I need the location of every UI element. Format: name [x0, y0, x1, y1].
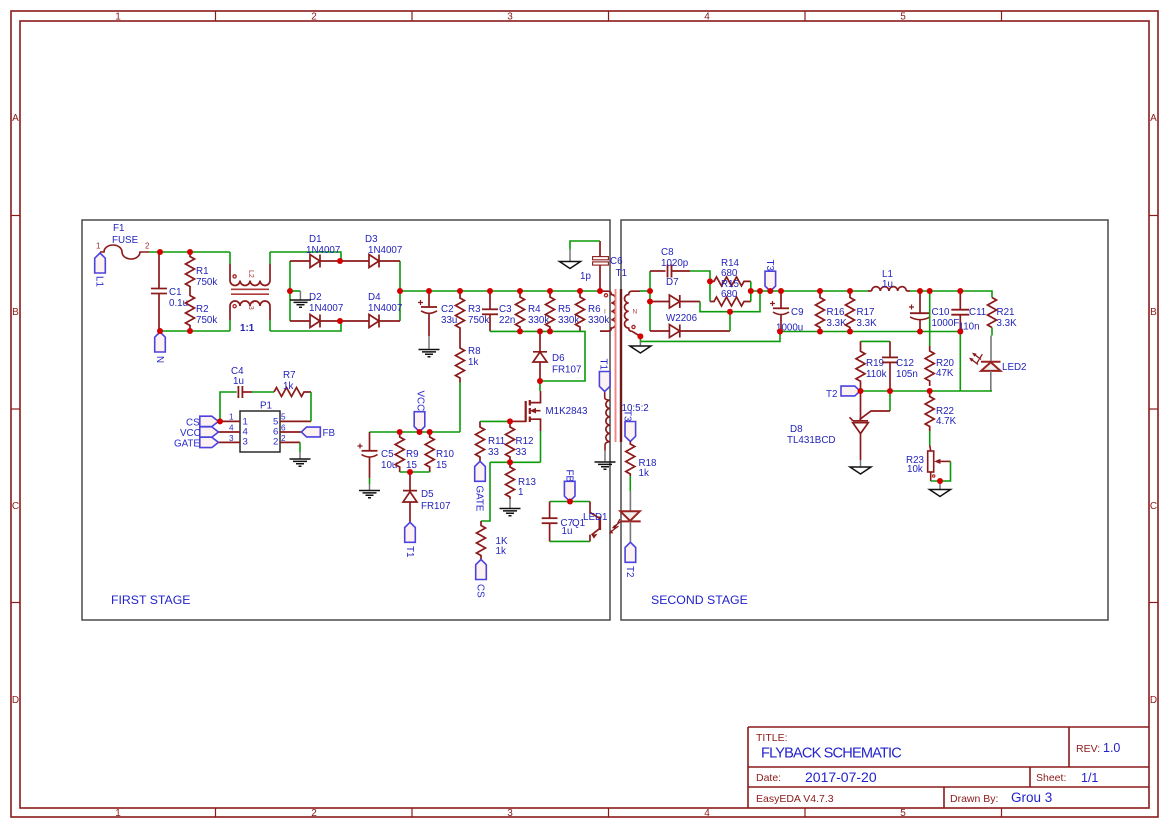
- wire choke to bridge top: [270, 252, 341, 261]
- opto light arrows: [609, 519, 622, 533]
- svg-text:R2: R2: [196, 304, 209, 315]
- svg-text:TL431BCD: TL431BCD: [787, 435, 835, 446]
- resistor R9 15: [395, 432, 418, 472]
- port T3 at R18: [622, 410, 636, 442]
- svg-text:C5: C5: [381, 449, 394, 460]
- svg-text:D8: D8: [790, 424, 803, 435]
- svg-text:1N4007: 1N4007: [306, 245, 340, 256]
- wire gate lead: [510, 420, 526, 422]
- ground C2: [419, 350, 440, 357]
- svg-text:R7: R7: [283, 370, 296, 381]
- wire secondary top to node: [640, 290, 650, 292]
- diode D7: [650, 277, 700, 308]
- port CS flag: [475, 560, 487, 599]
- svg-text:D: D: [1150, 695, 1157, 706]
- transformer core lines: [616, 289, 622, 442]
- ground aux winding: [595, 462, 616, 469]
- junction dots second stage: [637, 278, 963, 484]
- capacitor C4 1u: [231, 366, 252, 398]
- svg-text:A: A: [1150, 113, 1157, 124]
- wire main bus: [400, 290, 600, 292]
- svg-text:REV:: REV:: [1076, 743, 1100, 755]
- wire C4 left branch: [220, 392, 236, 421]
- svg-text:T3: T3: [622, 410, 633, 422]
- svg-text:110k: 110k: [866, 369, 887, 380]
- frame row letters left: [12, 113, 19, 706]
- port N (neutral): [154, 332, 165, 363]
- svg-text:C8: C8: [661, 247, 674, 258]
- resistor R20 47K: [925, 346, 954, 386]
- resistor R21 3.3K: [988, 298, 1018, 330]
- first stage box: [82, 220, 610, 620]
- svg-text:T2: T2: [826, 389, 837, 400]
- svg-text:2: 2: [145, 242, 150, 251]
- svg-text:D6: D6: [552, 353, 565, 364]
- svg-text:C3: C3: [499, 304, 512, 315]
- svg-text:D1: D1: [309, 234, 322, 245]
- svg-text:FUSE: FUSE: [112, 235, 139, 246]
- svg-text:5: 5: [900, 808, 906, 819]
- resistor R14 680: [710, 258, 751, 286]
- wire W2206 cathode up: [729, 312, 731, 331]
- svg-text:C: C: [1150, 501, 1157, 512]
- wire R18 to LED1: [629, 476, 631, 491]
- svg-text:Drawn By:: Drawn By:: [950, 793, 998, 805]
- ground secondary: [630, 341, 651, 353]
- svg-text:R16: R16: [827, 307, 846, 318]
- resistor R19 110k: [856, 341, 887, 391]
- svg-text:750k: 750k: [196, 315, 217, 326]
- wire rectifier input vertical: [649, 271, 651, 331]
- resistor R6 330k: [576, 291, 610, 332]
- transformer T1 primary winding: [600, 268, 627, 331]
- diode D8 TL431BCD: [787, 391, 890, 460]
- resistor R17 3.3K: [846, 291, 878, 332]
- resistor R18 1k: [626, 442, 657, 480]
- svg-text:SECOND STAGE: SECOND STAGE: [651, 593, 748, 607]
- wire bridge left vertical: [289, 261, 291, 321]
- wire R23 wiper loop: [931, 461, 951, 481]
- svg-text:750k: 750k: [468, 315, 489, 326]
- title block: [748, 727, 1149, 808]
- svg-text:C9: C9: [791, 307, 804, 318]
- wire bridge right vertical: [399, 261, 401, 321]
- resistor R12 33: [506, 421, 534, 462]
- port CS at P1: [186, 416, 218, 428]
- fuse F1: [96, 223, 150, 259]
- svg-text:15: 15: [406, 460, 417, 471]
- svg-text:10k: 10k: [907, 464, 923, 475]
- wire aux to ground: [604, 451, 606, 462]
- svg-text:D3: D3: [365, 234, 378, 245]
- frame row letters right: [1150, 113, 1157, 706]
- wire C8 to R14 R15: [690, 271, 710, 302]
- svg-text:1N4007: 1N4007: [368, 245, 402, 256]
- svg-text:C11: C11: [969, 307, 986, 318]
- svg-text:2017-07-20: 2017-07-20: [805, 769, 877, 785]
- resistor R5 330k: [546, 291, 580, 332]
- diode LED2: [981, 362, 1027, 391]
- svg-text:R9: R9: [406, 449, 419, 460]
- port VCC: [414, 391, 425, 432]
- resistor R10 15: [425, 432, 454, 472]
- wire R14 R15 right vertical: [750, 281, 752, 301]
- svg-text:D2: D2: [309, 292, 322, 303]
- svg-text:FR107: FR107: [552, 365, 581, 376]
- svg-text:C: C: [12, 501, 19, 512]
- diode D1 1N4007: [290, 234, 340, 268]
- wire opto box bottom: [550, 540, 590, 542]
- svg-text:T2: T2: [624, 566, 635, 577]
- wire choke to bridge bottom: [270, 321, 341, 331]
- capacitor C1: [151, 252, 167, 331]
- svg-text:1: 1: [96, 242, 101, 251]
- svg-text:1k: 1k: [496, 546, 506, 557]
- svg-text:CS: CS: [475, 584, 486, 598]
- capacitor C3 22n: [482, 291, 515, 331]
- wire C5 to ground: [369, 478, 371, 484]
- resistor R7 1k: [274, 370, 311, 397]
- svg-text:5: 5: [900, 12, 906, 23]
- svg-text:3: 3: [507, 808, 513, 819]
- svg-text:1N4007: 1N4007: [368, 303, 402, 314]
- capacitor C2 33u: [418, 291, 457, 349]
- svg-text:T3: T3: [764, 260, 775, 272]
- svg-text:33: 33: [488, 447, 499, 458]
- potentiometer R23 10k: [906, 451, 951, 481]
- svg-text:1u: 1u: [562, 526, 573, 537]
- svg-text:47K: 47K: [936, 368, 954, 379]
- svg-text:R3: R3: [468, 304, 481, 315]
- svg-text:3.3K: 3.3K: [997, 318, 1018, 329]
- wire return row to ground: [640, 332, 780, 342]
- capacitor C11 110n: [951, 291, 986, 333]
- svg-text:4: 4: [704, 808, 710, 819]
- svg-text:3.3K: 3.3K: [857, 318, 878, 329]
- svg-text:1020p: 1020p: [661, 258, 689, 269]
- P1 pin numbers: [229, 413, 286, 444]
- svg-text:VCC: VCC: [180, 428, 201, 439]
- svg-text:R12: R12: [516, 436, 534, 447]
- resistor R11 33: [476, 421, 506, 461]
- transistor Q2 M1K2843 MOSFET: [526, 391, 588, 431]
- svg-text:L1: L1: [94, 276, 105, 287]
- svg-text:1: 1: [115, 808, 121, 819]
- svg-text:4: 4: [229, 424, 234, 433]
- ground C6: [560, 250, 581, 269]
- capacitor C5 10u: [358, 432, 398, 478]
- capacitor C12 105n: [882, 341, 918, 391]
- svg-text:2: 2: [281, 434, 286, 443]
- svg-text:Date:: Date:: [756, 772, 781, 784]
- port L1 (line input): [94, 253, 106, 287]
- second stage box: [621, 220, 1108, 620]
- wire R7 to pin5: [310, 392, 312, 421]
- capacitor C8 1020p: [650, 247, 690, 278]
- svg-text:1: 1: [115, 12, 121, 23]
- svg-text:R11: R11: [488, 436, 505, 447]
- port GATE at P1: [174, 437, 218, 449]
- svg-text:VCC: VCC: [415, 391, 426, 412]
- svg-text:2: 2: [311, 12, 317, 23]
- svg-text:A: A: [12, 113, 19, 124]
- svg-text:C6: C6: [610, 256, 623, 267]
- svg-text:3: 3: [507, 12, 513, 23]
- svg-text:R6: R6: [588, 304, 601, 315]
- svg-text:N: N: [633, 309, 638, 316]
- wire R13 to ground: [509, 499, 511, 508]
- port FB opto: [564, 470, 576, 502]
- svg-text:GATE: GATE: [174, 439, 200, 450]
- svg-text:W2206: W2206: [666, 313, 698, 324]
- capacitor C9 1000u: [770, 291, 804, 334]
- svg-text:GATE: GATE: [474, 486, 485, 512]
- svg-text:B: B: [12, 307, 19, 318]
- svg-text:T1: T1: [404, 546, 415, 557]
- wire pin2 to ground: [299, 442, 301, 452]
- svg-text:1: 1: [229, 413, 234, 422]
- transformer L2/L3 common-mode choke: [230, 252, 270, 334]
- resistor R16 3.3K: [816, 291, 848, 332]
- svg-text:1u: 1u: [233, 376, 244, 387]
- svg-text:Grou 3: Grou 3: [1011, 790, 1052, 805]
- svg-text:EasyEDA V4.7.3: EasyEDA V4.7.3: [756, 793, 834, 805]
- diode D2 1N4007: [290, 292, 343, 328]
- svg-text:D4: D4: [368, 292, 381, 303]
- resistor R8 1k: [456, 334, 482, 383]
- diode D5 FR107: [403, 472, 450, 522]
- svg-text:1k: 1k: [639, 468, 649, 479]
- wire output row: [751, 290, 868, 292]
- svg-text:M1K2843: M1K2843: [546, 406, 588, 417]
- svg-text:R19: R19: [866, 358, 884, 369]
- wire C4 to R7: [252, 391, 274, 393]
- svg-text:LED2: LED2: [1002, 362, 1027, 373]
- svg-text:P1: P1: [260, 401, 272, 412]
- svg-text:33: 33: [516, 447, 527, 458]
- svg-text:1N4007: 1N4007: [309, 303, 343, 314]
- svg-text:R10: R10: [436, 449, 455, 460]
- wire output bottom row: [780, 331, 960, 333]
- svg-text:FIRST STAGE: FIRST STAGE: [111, 593, 191, 607]
- svg-text:R1: R1: [196, 266, 209, 277]
- svg-text:680: 680: [721, 289, 738, 300]
- wire C12 ref stub: [889, 391, 891, 411]
- svg-text:1: 1: [518, 487, 523, 498]
- svg-text:1p: 1p: [580, 271, 591, 282]
- resistor R3 750k: [456, 291, 490, 334]
- svg-text:F1: F1: [113, 223, 124, 234]
- svg-text:R4: R4: [528, 304, 541, 315]
- svg-text:R5: R5: [558, 304, 571, 315]
- svg-text:T1: T1: [616, 268, 627, 279]
- svg-text:1.0: 1.0: [1103, 741, 1120, 755]
- wire R22 to R23: [929, 431, 931, 445]
- port VCC at P1: [180, 427, 218, 439]
- capacitor C7 1u: [542, 502, 573, 542]
- resistor R1: [186, 252, 218, 291]
- diode D3 1N4007: [340, 234, 402, 268]
- resistor R4 330k: [516, 291, 550, 332]
- wire clamp row: [490, 331, 585, 381]
- ground P1 pin2: [290, 459, 311, 466]
- svg-text:1000F: 1000F: [932, 318, 960, 329]
- transformer T1 secondary winding: [625, 291, 641, 336]
- svg-text:I: I: [604, 309, 606, 316]
- svg-text:10u: 10u: [381, 460, 397, 471]
- wire source row: [490, 461, 541, 463]
- svg-text:C10: C10: [932, 307, 951, 318]
- resistor R2: [186, 291, 218, 330]
- svg-text:33u: 33u: [441, 315, 457, 326]
- title block texts: [756, 732, 1100, 805]
- diode LED1: [620, 491, 640, 542]
- svg-text:4: 4: [704, 12, 710, 23]
- svg-text:3: 3: [229, 434, 234, 443]
- svg-text:FLYBACK SCHEMATIC: FLYBACK SCHEMATIC: [761, 746, 901, 762]
- svg-text:3.3K: 3.3K: [827, 318, 848, 329]
- wire R20 top lead: [929, 291, 931, 346]
- wire source to row: [540, 431, 542, 462]
- ground R23: [930, 481, 951, 497]
- resistor R15 680: [710, 279, 751, 306]
- svg-text:6: 6: [281, 424, 286, 433]
- svg-text:105n: 105n: [896, 369, 918, 380]
- resistor R13 1: [506, 462, 537, 499]
- wire CS branch: [481, 462, 490, 521]
- wire feedback row: [861, 390, 961, 392]
- svg-text:2: 2: [311, 808, 317, 819]
- ground R13: [500, 509, 521, 516]
- svg-text:3: 3: [243, 437, 248, 448]
- svg-text:C2: C2: [441, 304, 454, 315]
- svg-text:D7: D7: [666, 277, 679, 288]
- resistor R22 4.7K: [925, 391, 956, 431]
- ground bridge negative: [290, 291, 311, 307]
- transistor Q1 opto phototransistor: [572, 502, 608, 542]
- wire output row after L1: [910, 291, 992, 298]
- port GATE flag: [474, 461, 486, 512]
- svg-text:680: 680: [721, 268, 738, 279]
- diode D4 1N4007: [340, 292, 402, 328]
- junction dots first stage: [157, 249, 603, 505]
- wire R21 to LED2: [991, 328, 993, 336]
- LED2 light arrows: [969, 353, 982, 365]
- inductor L1 1u: [868, 269, 910, 291]
- port T2 below LED1: [624, 542, 636, 577]
- svg-text:TITLE:: TITLE:: [756, 732, 788, 744]
- svg-text:4.7K: 4.7K: [936, 416, 957, 427]
- wire C6 to ground: [570, 241, 600, 250]
- svg-text:N: N: [154, 356, 165, 363]
- svg-text:5: 5: [281, 413, 286, 422]
- svg-text:1/1: 1/1: [1081, 771, 1098, 785]
- svg-text:Sheet:: Sheet:: [1036, 772, 1066, 784]
- svg-text:CS: CS: [186, 418, 200, 429]
- wire opto box top: [550, 501, 590, 503]
- svg-text:B: B: [1150, 307, 1157, 318]
- svg-text:1u: 1u: [882, 279, 893, 290]
- resistor 1K 1k: [477, 521, 508, 560]
- connector P1: [217, 401, 312, 453]
- wire VCC row: [370, 431, 461, 433]
- svg-text:R21: R21: [997, 307, 1015, 318]
- wire LED2 return: [960, 332, 992, 392]
- svg-text:R17: R17: [857, 307, 875, 318]
- ground C5: [359, 491, 380, 498]
- svg-text:2: 2: [273, 437, 278, 448]
- port T1 bottom: [404, 522, 416, 557]
- wire drain node: [539, 381, 541, 391]
- port T1 aux: [598, 359, 611, 392]
- svg-text:330k: 330k: [588, 315, 609, 326]
- svg-text:L3: L3: [247, 302, 254, 310]
- frame ruler numbers bottom: [115, 808, 906, 819]
- svg-text:750k: 750k: [196, 277, 217, 288]
- wire input bottom: [159, 330, 230, 332]
- transformer T1 aux winding: [605, 392, 610, 451]
- wire R19 C12 top row: [861, 340, 891, 342]
- svg-text:T1: T1: [598, 359, 609, 370]
- svg-text:1k: 1k: [468, 357, 478, 368]
- svg-text:1:1: 1:1: [240, 323, 255, 334]
- capacitor C6 1p: [580, 241, 623, 291]
- port T2 at TL431: [826, 386, 860, 400]
- svg-text:FB: FB: [323, 428, 336, 439]
- svg-text:D: D: [12, 695, 19, 706]
- wire gate net: [480, 420, 510, 422]
- svg-text:FB: FB: [564, 470, 575, 483]
- svg-text:L2: L2: [247, 270, 254, 278]
- svg-text:C1: C1: [169, 287, 182, 298]
- svg-text:FR107: FR107: [421, 501, 450, 512]
- wire R9 R10 bottom row: [400, 471, 430, 473]
- wire rectifier output row: [700, 291, 760, 312]
- svg-text:C12: C12: [896, 358, 914, 369]
- svg-text:1k: 1k: [283, 381, 293, 392]
- port FB at P1: [301, 427, 335, 439]
- diode D6 FR107: [533, 331, 581, 381]
- svg-text:22n: 22n: [499, 315, 515, 326]
- ground D8: [850, 460, 871, 474]
- capacitor C10 1000F: [909, 291, 959, 332]
- diode W2206: [650, 313, 730, 338]
- wire input top: [149, 251, 230, 253]
- svg-text:LED1: LED1: [583, 512, 608, 523]
- svg-text:R8: R8: [468, 346, 481, 357]
- svg-text:D5: D5: [421, 489, 434, 500]
- wire R8 to VCC row: [459, 383, 461, 433]
- port T3 output: [764, 260, 776, 292]
- frame ruler numbers top: [115, 12, 906, 23]
- svg-text:15: 15: [436, 460, 447, 471]
